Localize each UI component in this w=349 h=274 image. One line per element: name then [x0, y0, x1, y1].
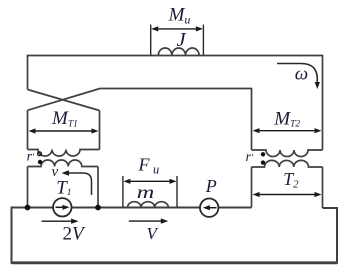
svg-text:r′: r′	[246, 150, 254, 165]
svg-text:ω: ω	[295, 64, 308, 85]
svg-text:r′: r′	[27, 150, 35, 165]
svg-text:m: m	[137, 182, 155, 202]
svg-text:P: P	[205, 176, 217, 196]
svg-text:2V: 2V	[63, 224, 87, 245]
svg-text:J: J	[177, 29, 187, 51]
